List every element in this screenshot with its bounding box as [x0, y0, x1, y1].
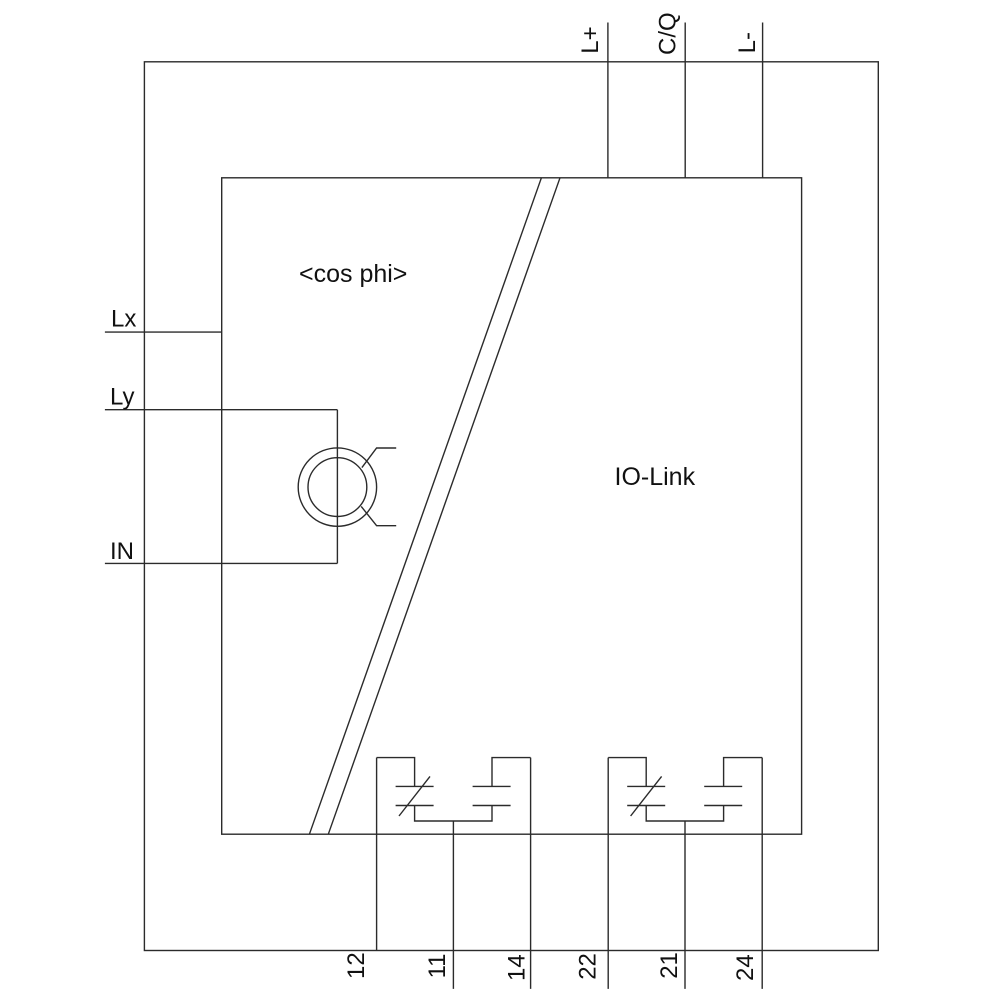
- function separator diagonal 2: [328, 178, 560, 834]
- svg-text:<cos phi>: <cos phi>: [299, 260, 407, 288]
- svg-text:21: 21: [656, 952, 683, 979]
- wire Ly: [105, 409, 338, 411]
- svg-text:IO-Link: IO-Link: [615, 463, 696, 491]
- svg-text:Ly: Ly: [110, 383, 134, 410]
- relay contact K2 common link: [646, 806, 723, 822]
- relay contact K2 NO lower bar: [704, 805, 742, 807]
- device box: [222, 178, 802, 834]
- transformer tap lower: [361, 506, 396, 525]
- relay contact K2 terminal 22 wire: [607, 758, 609, 989]
- relay contact K2 NC lower bar: [627, 805, 665, 807]
- relay contact K1 NC slash: [399, 776, 430, 816]
- relay contact K1 NO lower bar: [473, 805, 511, 807]
- wire L-: [762, 23, 764, 178]
- relay contact K1 common link: [415, 806, 492, 822]
- wire C/Q: [684, 23, 686, 178]
- function separator diagonal 1: [309, 178, 541, 834]
- relay contact K2 NO upper bar: [704, 785, 742, 787]
- wire IN: [105, 562, 338, 564]
- relay contact K1 NO upper bar: [473, 785, 511, 787]
- svg-text:22: 22: [574, 953, 601, 980]
- svg-text:14: 14: [503, 954, 530, 981]
- relay contact K1 terminal 14 wire: [530, 758, 532, 989]
- relay contact K2 NC upper bar: [627, 785, 665, 787]
- relay contact K1 NC upper bar: [396, 785, 434, 787]
- svg-text:IN: IN: [110, 538, 134, 565]
- relay contact K2 NO arm: [724, 758, 763, 787]
- transformer tap upper: [362, 448, 396, 468]
- wire Lx: [105, 331, 222, 333]
- relay contact K2 NC slash: [631, 776, 662, 816]
- svg-text:24: 24: [732, 954, 759, 981]
- relay contact K1 terminal 11 wire: [452, 821, 454, 989]
- wire L+: [607, 23, 609, 178]
- svg-text:11: 11: [424, 953, 451, 978]
- svg-text:L+: L+: [577, 26, 604, 53]
- outer frame: [144, 62, 878, 951]
- relay contact K1 NC lower bar: [396, 805, 434, 807]
- relay contact K1 NC arm: [377, 758, 415, 787]
- relay contact K2 NC arm: [608, 758, 646, 787]
- svg-text:C/Q: C/Q: [655, 12, 682, 55]
- measuring branch vertical: [336, 410, 338, 564]
- svg-text:L-: L-: [734, 32, 761, 53]
- relay contact K2 (terminals 22/21/24): [608, 758, 762, 989]
- relay contact K2 terminal 21 wire: [684, 821, 686, 989]
- current transformer T1 outer circle: [298, 448, 376, 526]
- relay contact K1 NO arm: [492, 758, 531, 787]
- svg-text:Lx: Lx: [111, 305, 136, 332]
- relay contact K1 terminal 12 wire: [376, 758, 378, 951]
- current transformer T1 inner circle: [308, 458, 367, 517]
- relay contact K2 terminal 24 wire: [761, 758, 763, 989]
- svg-text:12: 12: [343, 952, 370, 979]
